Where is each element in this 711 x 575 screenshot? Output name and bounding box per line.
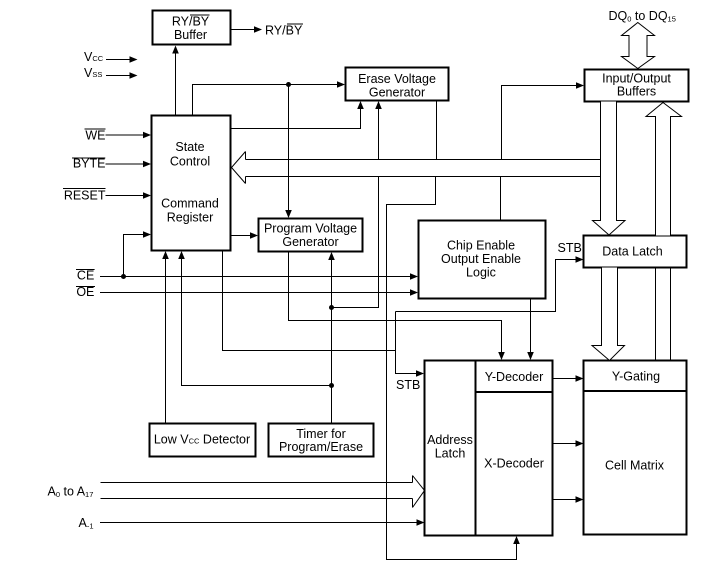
- node junction timer line lower: [329, 383, 334, 388]
- box Input/Output Buffers: [585, 70, 689, 102]
- wire lower bus to X-Decoder bottom: [387, 177, 517, 560]
- wire Low Vcc Detector to State Control bottom: [165, 258, 167, 424]
- wire STB net to Address Latch: [396, 312, 418, 374]
- hollow arrow A0-A17 into Address Latch: [413, 476, 425, 508]
- svg-text:RESET: RESET: [64, 189, 106, 203]
- arrowhead into PVG bottom from timer: [328, 252, 335, 260]
- svg-text:Register: Register: [167, 211, 214, 225]
- svg-text:Latch: Latch: [435, 447, 466, 461]
- wire upper bus to EVG bottom arrow: [378, 108, 380, 160]
- svg-text:Control: Control: [170, 155, 210, 169]
- box Erase Voltage Generator: [346, 68, 449, 101]
- svg-text:Erase Voltage: Erase Voltage: [358, 72, 436, 86]
- wire RY/BY buffer input from State Control top: [175, 50, 177, 116]
- svg-text:Address: Address: [427, 433, 473, 447]
- wire CE line: [100, 276, 411, 278]
- svg-text:Program/Erase: Program/Erase: [279, 440, 363, 454]
- wire A0-A17 bus lines: [101, 482, 413, 484]
- wire upper bus to EVG bottom plain: [436, 101, 438, 160]
- wire STB net to Data Latch: [396, 260, 578, 312]
- wire Data Latch to Y-Gating right verticals: [655, 268, 657, 361]
- arrowhead into PVG left: [250, 232, 258, 239]
- svg-text:Buffers: Buffers: [617, 85, 656, 99]
- hollow arrow I/O Buffers to Data Latch (down): [593, 102, 626, 236]
- svg-text:Timer for: Timer for: [296, 427, 346, 441]
- svg-text:Generator: Generator: [282, 235, 338, 249]
- svg-text:Y-Decoder: Y-Decoder: [485, 370, 544, 384]
- svg-text:Generator: Generator: [369, 86, 425, 100]
- svg-text:DQ0 to DQ15: DQ0 to DQ15: [609, 9, 676, 24]
- box Program Voltage Generator: [259, 219, 363, 252]
- wire upper bus to Input/Output Buffers left: [502, 86, 578, 160]
- svg-text:Input/Output: Input/Output: [602, 72, 671, 86]
- arrowhead WE: [143, 132, 151, 139]
- arrowhead into EVG bottom x360: [357, 101, 364, 109]
- arrowhead into EVG bottom x378: [375, 101, 382, 109]
- arrowhead CE into CEOE: [410, 273, 418, 280]
- hollow arrow Data Latch to I/O Buffers (up): [646, 103, 682, 236]
- wire X-Decoder to Cell Matrix lower: [553, 499, 578, 501]
- svg-text:X-Decoder: X-Decoder: [484, 457, 544, 471]
- svg-text:Output Enable: Output Enable: [441, 252, 521, 266]
- arrowhead STB into Data Latch: [576, 256, 584, 263]
- arrowhead BYTE: [143, 161, 151, 168]
- hollow arrow Data Latch to Y-Gating (down): [592, 268, 625, 361]
- svg-text:BYTE: BYTE: [73, 157, 106, 171]
- arrowhead into X-Decoder bottom: [513, 536, 520, 544]
- divider Y-Decoder/X-Decoder horizontal: [476, 391, 553, 393]
- arrowhead into State Control bottom x165: [162, 251, 169, 259]
- hollow arrow into State Control right: [232, 152, 246, 184]
- node junction on EVG input line: [286, 82, 291, 87]
- node junction on CE line: [121, 274, 126, 279]
- svg-text:Data Latch: Data Latch: [602, 245, 663, 259]
- wire upper bus line: [246, 159, 601, 161]
- box Timer for Program/Erase: [269, 424, 374, 457]
- svg-text:Program Voltage: Program Voltage: [264, 222, 357, 236]
- svg-text:WE: WE: [85, 129, 105, 143]
- wire lower bus to timer line junction: [332, 177, 379, 308]
- box Data Latch: [584, 236, 687, 268]
- svg-text:Cell Matrix: Cell Matrix: [605, 459, 665, 473]
- svg-text:State: State: [175, 140, 204, 154]
- wire PVG bottom to Y-Decoder top: [289, 252, 502, 354]
- wire X-Decoder to Cell Matrix upper: [553, 443, 578, 445]
- arrowhead X-Decoder into Cell Matrix lower: [576, 496, 584, 503]
- arrowhead STB into Address Latch: [416, 370, 424, 377]
- wire State Control top to EVG left with PVG branch: [193, 85, 339, 116]
- arrowhead A-1 into Address Latch: [417, 519, 425, 526]
- wire State Control bottom down to STB node: [223, 251, 396, 351]
- svg-text:RY/BY: RY/BY: [265, 24, 303, 38]
- wire State Control right to PVG left: [231, 235, 251, 237]
- wire BYTE input: [106, 163, 145, 165]
- arrowhead Vcc: [130, 56, 138, 63]
- box Address Latch / Y-Decoder / X-Decoder: [425, 361, 553, 536]
- wire OE line: [100, 292, 411, 294]
- node junction timer line upper: [329, 305, 334, 310]
- svg-text:Y-Gating: Y-Gating: [612, 370, 660, 384]
- wire RY/BY output: [231, 29, 256, 31]
- arrowhead into RY/BY buffer bottom: [172, 46, 179, 54]
- wire timer branch to State Control bottom: [182, 258, 332, 386]
- arrowhead Vss: [130, 72, 138, 79]
- wire A-1 input: [100, 522, 417, 524]
- svg-text:Command: Command: [161, 197, 219, 211]
- box Chip Enable Output Enable Logic: [419, 221, 546, 299]
- box Y-Gating / Cell Matrix: [584, 361, 687, 535]
- arrowhead X-Decoder into Cell Matrix upper: [576, 440, 584, 447]
- divider Address Latch vertical: [475, 361, 477, 536]
- wire Vss input arrow: [106, 75, 131, 77]
- svg-text:OE: OE: [76, 285, 94, 299]
- arrowhead into State Control bottom x181: [178, 251, 185, 259]
- wire branch down to PVG top: [288, 85, 290, 212]
- svg-text:Chip Enable: Chip Enable: [447, 239, 515, 253]
- svg-text:STB: STB: [558, 241, 582, 255]
- wire WE input: [106, 134, 145, 136]
- svg-text:RY/BY: RY/BY: [172, 15, 210, 29]
- arrowhead CE branch into State Control: [143, 231, 151, 238]
- arrowhead OE into CEOE: [410, 289, 418, 296]
- svg-text:STB: STB: [396, 378, 420, 392]
- divider Y-Gating/Cell Matrix: [584, 390, 687, 392]
- wire RESET input: [106, 195, 145, 197]
- box Low Vcc Detector: [150, 424, 256, 457]
- svg-text:CE: CE: [77, 269, 94, 283]
- wire Timer output up to PVG bottom: [331, 259, 333, 424]
- hollow double arrow DQ bus: [622, 23, 655, 69]
- svg-text:Low VCC Detector: Low VCC Detector: [154, 433, 250, 447]
- wire Vcc input arrow: [106, 59, 131, 61]
- arrowhead RY/BY output: [254, 26, 262, 33]
- wire CE branch to State Control: [124, 235, 145, 277]
- wire State Control right to EVG bottom: [231, 108, 361, 129]
- arrowhead into Y-Decoder top x530: [527, 352, 534, 360]
- wire Y-Decoder to Y-Gating: [553, 378, 578, 380]
- box RY/BY Buffer: [153, 11, 231, 45]
- wire CEOE bottom to Y-Decoder top: [530, 299, 532, 354]
- arrowhead Y-Decoder into Y-Gating: [576, 375, 584, 382]
- wire lower bus to CEOE top: [500, 177, 502, 221]
- arrowhead into I/O Buffers left: [576, 82, 584, 89]
- box State Control / Command Register: [152, 116, 231, 251]
- arrowhead RESET: [143, 192, 151, 199]
- arrowhead into PVG top: [285, 210, 292, 218]
- arrowhead into EVG left: [337, 81, 345, 88]
- arrowhead into Y-Decoder top x501: [498, 352, 505, 360]
- svg-text:Logic: Logic: [466, 266, 496, 280]
- wire lower bus line: [246, 176, 601, 178]
- svg-text:Buffer: Buffer: [174, 28, 207, 42]
